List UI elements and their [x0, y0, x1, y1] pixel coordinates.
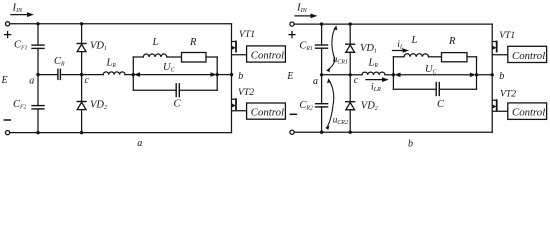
terminal - (fig b): [290, 130, 294, 134]
wire VT2 gate to control (fig a): [232, 110, 247, 112]
inductor L (fig b): [404, 35, 428, 57]
control box 1 (fig b): [508, 46, 547, 62]
wire top rail (fig a): [10, 23, 232, 25]
node b (fig b): [491, 71, 505, 82]
svg-text:UC: UC: [163, 62, 175, 74]
svg-text:CR1: CR1: [299, 40, 313, 52]
junction tank right (fig b): [475, 73, 478, 76]
wire tank to node b (fig a): [217, 74, 231, 76]
wire VT1 gate to control (fig a): [232, 54, 247, 56]
svg-text:Control: Control: [512, 50, 545, 62]
capacitor CR2 (fig b): [299, 75, 327, 132]
label - (fig a): [4, 119, 10, 121]
svg-text:IIN: IIN: [296, 1, 308, 14]
svg-text:C: C: [437, 99, 445, 110]
svg-text:c: c: [85, 75, 90, 86]
svg-text:LR: LR: [106, 57, 117, 69]
junction top rail / CR1 (fig b): [320, 22, 323, 25]
wire top rail (fig b): [294, 23, 492, 25]
label + (fig b): [289, 32, 295, 38]
terminal - (fig a): [6, 131, 10, 135]
svg-text:Control: Control: [512, 106, 545, 118]
wire tank right rail (fig b): [476, 57, 478, 89]
svg-text:Control: Control: [251, 107, 284, 119]
wire tank bottom-left (fig a): [133, 89, 176, 91]
wire R to right rail (fig a): [206, 56, 217, 58]
wire tank left rail (fig a): [132, 57, 134, 90]
voltage arrow uCR1 (fig b): [326, 25, 348, 72]
svg-text:CR2: CR2: [299, 100, 313, 112]
svg-text:VT1: VT1: [239, 29, 255, 40]
voltage arrow UC (fig a): [134, 62, 217, 77]
svg-text:a: a: [29, 75, 34, 86]
svg-text:a: a: [313, 76, 318, 87]
terminal + (fig a): [6, 22, 10, 26]
current arrow I_IN (fig a): [11, 1, 34, 17]
transistor VT2 (fig b): [492, 75, 516, 132]
current arrow iL (fig b): [393, 39, 410, 53]
junction top rail / VD1 (fig b): [349, 22, 352, 25]
label - (fig b): [290, 113, 296, 115]
svg-text:a: a: [137, 138, 142, 149]
resistor R (fig b): [442, 36, 468, 62]
svg-text:R: R: [189, 37, 197, 48]
wire VT1 gate to control (fig b): [492, 54, 508, 56]
wire tank right rail (fig a): [216, 57, 218, 90]
transistor VT2 (fig a): [232, 75, 255, 133]
svg-text:VD2: VD2: [361, 101, 378, 113]
wire L to R (fig a): [167, 56, 182, 58]
svg-text:VT1: VT1: [499, 30, 515, 41]
wire tank top-left (fig b): [393, 56, 404, 58]
svg-text:L: L: [152, 37, 159, 48]
capacitor C (fig b): [436, 83, 445, 111]
current arrow iLR (fig b): [366, 77, 389, 93]
svg-text:uCR2: uCR2: [333, 115, 348, 127]
inductor LR (fig a): [82, 57, 134, 74]
wire tank top-left (fig a): [133, 56, 143, 58]
svg-text:R: R: [448, 36, 456, 47]
diode VD1 (fig a): [77, 24, 107, 75]
svg-text:IIN: IIN: [12, 1, 24, 14]
svg-text:b: b: [238, 71, 243, 82]
svg-text:E: E: [286, 71, 293, 82]
svg-text:CR: CR: [54, 56, 65, 68]
wire tank bottom-right (fig b): [439, 88, 476, 90]
junction bottom rail / CR2 (fig b): [320, 131, 323, 134]
wire VT2 gate to control (fig b): [492, 110, 508, 112]
wire tank to node b (fig b): [477, 74, 493, 76]
diode VD2 (fig b): [346, 75, 378, 132]
svg-text:iLR: iLR: [371, 82, 381, 94]
svg-text:C: C: [174, 99, 182, 110]
diode VD1 (fig b): [346, 24, 377, 75]
svg-text:c: c: [354, 75, 359, 86]
svg-text:b: b: [408, 138, 413, 149]
wire bottom rail (fig a): [10, 132, 232, 134]
node a (fig a): [29, 73, 39, 86]
transistor VT1 (fig a): [232, 24, 256, 75]
resistor R (fig a): [182, 37, 207, 62]
voltage arrow uCR2 (fig b): [325, 78, 348, 130]
junction bottom rail / VD2 (fig b): [349, 131, 352, 134]
capacitor CR series (fig a): [38, 56, 82, 79]
junction tank left (fig a): [132, 73, 135, 76]
svg-text:CF2: CF2: [13, 99, 27, 111]
svg-text:E: E: [1, 75, 8, 86]
label + (fig a): [5, 32, 11, 38]
junction top rail / VD1 (fig a): [80, 22, 83, 25]
diode VD2 (fig a): [77, 75, 107, 133]
wire tank left rail (fig b): [392, 57, 394, 89]
svg-text:VT2: VT2: [238, 87, 254, 98]
capacitor CF1 (fig a): [14, 24, 44, 75]
capacitor CF2 (fig a): [13, 75, 44, 133]
terminal + (fig b): [290, 22, 294, 26]
control box 2 (fig b): [508, 103, 547, 120]
wire R to right rail (fig b): [467, 56, 477, 58]
svg-text:VT2: VT2: [500, 89, 516, 100]
svg-text:Control: Control: [251, 49, 284, 61]
node c (fig a): [80, 73, 90, 86]
current arrow I_IN (fig b): [295, 1, 318, 18]
voltage arrow UC (fig b): [394, 64, 476, 77]
svg-text:b: b: [499, 71, 504, 82]
wire L to R (fig b): [429, 56, 442, 58]
svg-text:LR: LR: [368, 58, 379, 70]
node c (fig b): [349, 73, 359, 86]
junction tank right (fig a): [216, 73, 219, 76]
inductor L (fig a): [143, 37, 167, 57]
svg-text:VD1: VD1: [90, 41, 107, 53]
node b (fig a): [230, 71, 244, 82]
svg-text:CF1: CF1: [14, 40, 28, 52]
inductor LR (fig b): [350, 58, 393, 75]
junction top rail / CF1 (fig a): [36, 22, 39, 25]
svg-text:VD1: VD1: [360, 43, 377, 55]
node a (fig b): [313, 73, 323, 87]
transistor VT1 (fig b): [492, 24, 515, 75]
control box 2 (fig a): [247, 103, 286, 119]
svg-text:L: L: [411, 35, 418, 46]
svg-text:iL: iL: [397, 39, 404, 51]
wire bottom rail (fig b): [294, 131, 492, 133]
wire tank bottom-left (fig b): [393, 88, 436, 90]
svg-text:VD2: VD2: [90, 100, 107, 112]
junction tank left (fig b): [392, 73, 395, 76]
wire tank bottom-right (fig a): [179, 89, 217, 91]
control box 1 (fig a): [247, 46, 286, 62]
capacitor CR1 (fig b): [299, 24, 327, 75]
junction bottom rail / CF2 (fig a): [36, 131, 39, 134]
junction bottom rail / VD2 (fig a): [80, 131, 83, 134]
svg-text:UC: UC: [425, 64, 437, 76]
svg-text:uCR1: uCR1: [333, 54, 348, 66]
wire node a to node c (fig b): [322, 74, 351, 76]
capacitor C (fig a): [174, 84, 182, 110]
